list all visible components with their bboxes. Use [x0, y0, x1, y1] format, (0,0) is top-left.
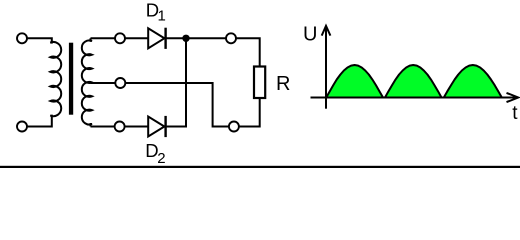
wire bottom rail and riser to node A	[91, 38, 187, 126]
terminal primary top	[17, 33, 27, 43]
terminal primary bottom	[17, 122, 27, 132]
diode D1	[148, 28, 164, 48]
U axis arrowhead	[322, 26, 331, 36]
t axis	[311, 97, 518, 99]
terminal center tap	[115, 78, 125, 88]
svg-text:1: 1	[158, 8, 166, 25]
svg-text:R: R	[276, 73, 290, 95]
waveform hump 1	[326, 65, 383, 98]
terminal output top	[226, 33, 236, 43]
terminal secondary top	[115, 33, 125, 43]
resistor R body	[254, 67, 265, 99]
transformer T1 primary winding	[26, 38, 61, 126]
t axis arrowhead	[507, 93, 519, 102]
waveform hump 3	[444, 65, 502, 98]
transformer T1 core	[69, 43, 73, 115]
bottom border line	[0, 166, 520, 168]
diode D2 cathode bar	[164, 116, 166, 137]
transformer T1 secondary winding	[82, 38, 92, 126]
wire top rail	[91, 38, 260, 66]
diode D2	[148, 117, 164, 137]
U axis	[325, 26, 327, 109]
svg-text:U: U	[303, 23, 317, 45]
terminal secondary bottom	[115, 122, 125, 132]
terminal output bottom	[229, 122, 239, 132]
svg-text:2: 2	[157, 150, 165, 167]
diode D1 cathode bar	[164, 28, 166, 49]
waveform hump 2	[385, 65, 442, 98]
wire middle rail (center tap to load bottom)	[91, 83, 260, 127]
node A junction dot	[182, 35, 189, 42]
svg-text:t: t	[512, 103, 518, 124]
